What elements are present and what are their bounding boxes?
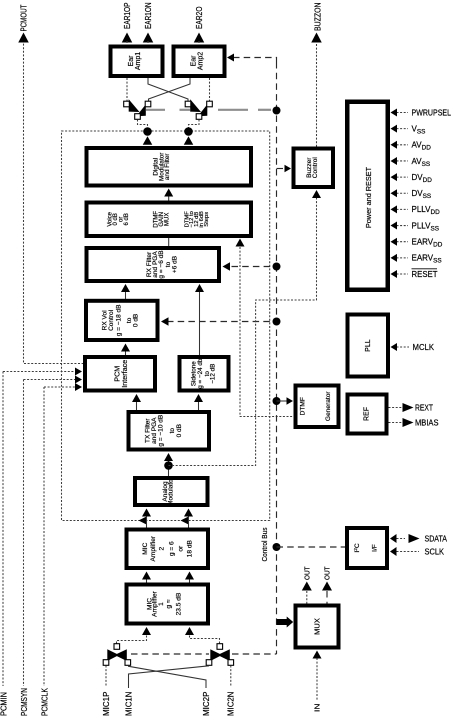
svg-text:SDATA: SDATA: [425, 534, 448, 543]
svg-text:MUX: MUX: [165, 213, 171, 226]
block Digital Modulator and Filter: [87, 148, 252, 186]
wire TX Filter to PCM Interface: [136, 401, 138, 410]
wire control bus to DTMF Generator: [277, 400, 289, 402]
wire TX Filter to Sidetone: [198, 401, 200, 410]
pin AVSS: [397, 160, 409, 162]
wire control bus to Buzzer Control: [277, 168, 286, 170]
pin PCMOUT: [18, 33, 29, 43]
svg-text:or: or: [178, 545, 185, 552]
node control-rxfilter: [273, 263, 281, 271]
svg-text:PWRUPSEL: PWRUPSEL: [412, 108, 452, 117]
svg-text:0 dB: 0 dB: [176, 424, 183, 437]
block PLL: [348, 315, 389, 377]
svg-text:PCMCLK: PCMCLK: [40, 687, 49, 716]
wire MIC Amp2 to Analog Modulator (left): [146, 516, 148, 528]
svg-text:Amplifier: Amplifier: [150, 535, 157, 561]
svg-text:MIC1N: MIC1N: [124, 691, 133, 716]
svg-text:Interface: Interface: [120, 360, 129, 388]
svg-text:I2C: I2C: [353, 543, 361, 553]
pin EARVDD: [397, 241, 409, 243]
wire Ear Amp1 to switch S2 left (crossing): [148, 78, 188, 101]
pin EAR1OP: [122, 33, 133, 43]
wire Analog Modulator to TX Filter: [168, 460, 170, 476]
block PCM Interface: [85, 357, 155, 391]
svg-text:18 dB: 18 dB: [186, 539, 193, 557]
svg-text:Generator: Generator: [325, 391, 332, 421]
svg-text:BUZZON: BUZZON: [313, 2, 322, 31]
pin EAR2O: [194, 33, 205, 43]
wire RX Vol to RX Filter: [125, 292, 127, 299]
pin DVDD: [397, 176, 409, 178]
wire RX filter gain control: [232, 266, 277, 268]
svg-text:REXT: REXT: [415, 403, 433, 412]
wire BUZZON: [316, 44, 318, 147]
pin SCLK: [390, 547, 397, 556]
wire switch S2 output to node B: [189, 120, 200, 129]
svg-text:to: to: [169, 428, 176, 434]
svg-text:I/F: I/F: [372, 544, 379, 552]
svg-text:2: 2: [158, 547, 165, 551]
wire control bus to MUX (thick stub): [277, 619, 289, 625]
wire PCMCLK: [44, 386, 78, 388]
svg-text:MIC2P: MIC2P: [202, 692, 211, 717]
pin PWRUPSEL: [397, 112, 409, 114]
wire ear switch control line (gray): [146, 109, 271, 111]
wire digital modulator output to node A: [143, 136, 153, 145]
svg-text:PCMOUT: PCMOUT: [19, 4, 28, 31]
pin DVSS: [397, 192, 409, 194]
wire RX Vol gain control: [167, 321, 277, 323]
svg-text:PCMIN: PCMIN: [0, 692, 8, 716]
wire Ear Amp1 to switch S1 left: [126, 78, 128, 101]
node B (ear2 junction): [184, 127, 193, 136]
svg-text:Ear: Ear: [128, 55, 135, 67]
svg-text:g ≈: g ≈: [166, 599, 173, 608]
wire MIC Amp2 to Analog Modulator (right): [188, 516, 190, 528]
svg-text:OUT: OUT: [303, 566, 312, 580]
wire RX Filter to MUX: [168, 238, 170, 246]
wire control bus to I2C: [277, 546, 346, 548]
op-amp Ear Amp2: [174, 47, 225, 77]
pin OUT (left): [306, 591, 308, 604]
arrow on loopback bus (left, mic1 tap): [139, 517, 147, 525]
svg-text:Amp1: Amp1: [135, 52, 142, 70]
wire ear-amp2 enable from control bus: [233, 58, 277, 63]
svg-text:Control: Control: [108, 309, 115, 331]
svg-text:Amp2: Amp2: [198, 52, 205, 70]
svg-text:Modulator: Modulator: [168, 476, 175, 506]
svg-text:6 dB: 6 dB: [124, 213, 130, 225]
pin MCLK: [397, 346, 410, 348]
wire mic switch M1 to MIC Amp1: [117, 635, 147, 644]
pin REXT: [389, 407, 403, 409]
wire MIC1P: [105, 666, 107, 687]
node control-i2c: [273, 543, 281, 551]
node control-dtmf: [273, 397, 281, 405]
wire PCMSYN: [24, 379, 78, 381]
switch M2 (mic2 select): [210, 649, 222, 661]
svg-text:−12 dB: −12 dB: [210, 364, 217, 384]
pin EARVSS: [397, 257, 409, 259]
block Gain MUX: [87, 203, 252, 237]
wire Sidetone to RX Filter: [199, 292, 201, 355]
svg-text:SCLK: SCLK: [425, 547, 445, 556]
svg-text:g = 6: g = 6: [168, 541, 175, 556]
block REF: [348, 395, 387, 434]
arrow PCMCLK into PCM Interface: [75, 383, 82, 391]
pin EAR1ON: [143, 33, 154, 43]
svg-text:EAR1ON: EAR1ON: [144, 2, 153, 29]
wire MIC Amp1 to MIC Amp2 (right): [189, 579, 191, 583]
block MIC Amplifier 1: [127, 585, 209, 624]
svg-text:1: 1: [158, 602, 165, 606]
svg-text:+6 dB: +6 dB: [172, 256, 179, 273]
wire PCM Interface to RX Vol: [125, 351, 127, 356]
pin AVDD: [397, 144, 409, 146]
svg-text:MUX: MUX: [312, 618, 321, 635]
svg-text:Control Bus: Control Bus: [260, 527, 269, 561]
wire DTMF Generator to MUX: [240, 247, 294, 417]
svg-text:EAR2O: EAR2O: [195, 7, 204, 30]
pin SDATA: [390, 534, 397, 543]
svg-text:PLL: PLL: [365, 339, 372, 352]
svg-text:and Filter: and Filter: [164, 153, 171, 181]
svg-text:Power and RESET: Power and RESET: [364, 166, 373, 228]
wire analog loopback bus (rectangle): [62, 131, 270, 521]
switch S2 (ear routing): [190, 99, 201, 112]
wire mic switch M2 to MIC Amp1: [190, 635, 220, 644]
pin VSS: [397, 128, 409, 130]
block Analog Modulator: [135, 478, 208, 505]
svg-text:g = −18 dB: g = −18 dB: [115, 304, 122, 336]
pin PLLVSS: [397, 225, 409, 227]
svg-text:MIC: MIC: [142, 542, 149, 554]
wire MIC1N (crossing): [129, 666, 210, 688]
block RX Vol Control: [86, 301, 158, 340]
svg-text:DTMF: DTMF: [299, 397, 306, 415]
svg-text:RESET: RESET: [412, 270, 438, 279]
op-amp Ear Amp1: [111, 47, 163, 77]
pin IN: [316, 658, 318, 700]
block Power and RESET: [347, 102, 388, 290]
wire MIC Amp1 to MIC Amp2 (left): [146, 579, 148, 583]
pin BUZZON: [311, 33, 322, 43]
svg-text:Steps: Steps: [204, 212, 210, 227]
wire MUX to Digital Modulator: [168, 196, 170, 201]
wire node C to Buzzer Control: [169, 198, 317, 466]
pin PLLVDD: [397, 208, 409, 210]
wire Ear Amp2 to switch S2 right: [209, 78, 211, 101]
svg-text:MIC1P: MIC1P: [102, 692, 111, 717]
wire control bus (vertical dashed): [276, 62, 278, 654]
wire mic switch control line: [131, 653, 209, 655]
svg-text:Control: Control: [312, 157, 319, 179]
wire MIC2P (crossing): [128, 666, 206, 688]
block TX Filter and PGA: [129, 412, 210, 450]
svg-text:MIC2N: MIC2N: [227, 691, 236, 716]
pin RESET: [397, 273, 409, 275]
block DTMF Generator: [296, 386, 339, 428]
node control-ear (gray bar junction): [273, 107, 281, 115]
svg-text:g = −6 dB: g = −6 dB: [158, 250, 165, 278]
svg-text:IN: IN: [313, 704, 322, 713]
node control-rxvol: [273, 318, 281, 326]
block I2C I/F: [347, 528, 387, 568]
wire switch S1 output to node A: [138, 120, 148, 129]
svg-text:EAR1OP: EAR1OP: [123, 3, 132, 30]
node A (ear1 junction): [143, 127, 152, 136]
switch S1 (ear routing): [129, 99, 140, 112]
svg-text:REF: REF: [364, 407, 371, 421]
svg-text:OUT: OUT: [323, 566, 332, 580]
wire PCMIN: [3, 371, 78, 373]
switch M1 (mic1 select): [107, 649, 119, 661]
svg-text:g = −24 db: g = −24 db: [197, 358, 204, 389]
svg-text:g = −10 dB: g = −10 dB: [158, 415, 165, 447]
svg-text:0 dB: 0 dB: [133, 314, 140, 327]
block MIC Amplifier 2: [127, 530, 209, 569]
block RX Filter and PGA: [87, 248, 220, 281]
svg-text:MBIAS: MBIAS: [415, 418, 439, 427]
pin OUT (right): [326, 591, 328, 604]
arrow PCMSYN into PCM Interface: [75, 376, 82, 384]
wire MIC2N: [230, 666, 232, 687]
block Buzzer Control: [294, 149, 334, 188]
block MUX (test mux): [296, 606, 339, 648]
svg-text:MCLK: MCLK: [413, 343, 435, 352]
wire digital modulator output to node B: [184, 136, 194, 145]
arrow on loopback bus (left, mic2 tap): [181, 517, 189, 525]
block Sidetone: [180, 357, 229, 391]
pin MBIAS: [389, 422, 403, 424]
wire PCMOUT: [24, 40, 84, 364]
node C (analog mod output): [164, 461, 173, 470]
wire Ear Amp2 to switch S1 right (crossing): [149, 78, 191, 101]
svg-text:Ear: Ear: [191, 55, 198, 67]
svg-text:23.5 dB: 23.5 dB: [176, 592, 183, 615]
svg-text:PCMSYN: PCMSYN: [20, 688, 29, 716]
arrow PCMIN into PCM Interface: [75, 368, 82, 376]
